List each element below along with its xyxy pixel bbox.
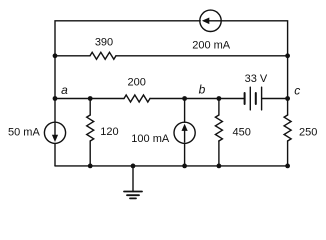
junction dot node a [53, 96, 58, 101]
wire resistor 200 to battery [150, 98, 245, 100]
svg-text:450: 450 [233, 126, 251, 138]
wire top-right segment [221, 21, 288, 56]
wire 120 branch bottom lead [89, 141, 91, 166]
junction dot 120 top [88, 96, 93, 101]
junction dot 100 mA top [182, 96, 187, 101]
svg-text:120: 120 [100, 126, 118, 138]
ground bar 3 [130, 197, 136, 199]
current source I2 arrow shaft [54, 124, 56, 137]
wire 100 mA branch bottom lead [184, 143, 186, 166]
battery V1 33V short plate 2 [255, 93, 257, 104]
wire 250 branch bottom lead [287, 141, 289, 166]
wire 390-row left lead [55, 55, 90, 57]
current source I1 arrowhead [202, 18, 209, 25]
wire top-left segment [55, 21, 200, 56]
battery V1 33V long plate 1 [249, 87, 251, 110]
wire bottom rail [55, 165, 288, 167]
svg-text:a: a [61, 83, 68, 97]
resistor 450 zigzag [215, 115, 222, 141]
svg-text:c: c [294, 83, 300, 97]
current source I2 50 mA circle [44, 122, 65, 143]
current source I2 arrowhead [52, 135, 58, 142]
junction dot ground [131, 164, 136, 169]
wire node a down to 50 mA source [54, 99, 56, 123]
resistor 250 zigzag [284, 115, 291, 141]
svg-text:200 mA: 200 mA [192, 39, 231, 51]
resistor 120 zigzag [87, 115, 94, 141]
wire 250 branch top lead [287, 99, 289, 116]
current source I3 arrow shaft [184, 129, 186, 142]
wire right vertical between 390-row and node c [287, 56, 289, 99]
junction dot 450 bottom [217, 164, 222, 169]
battery V1 33V short plate 1 [244, 93, 246, 104]
svg-text:33 V: 33 V [245, 73, 268, 85]
wire 390-row right lead [116, 55, 288, 57]
svg-text:200: 200 [128, 77, 146, 89]
current source I1 arrow shaft [207, 20, 221, 22]
battery V1 33V long plate 2 [261, 87, 263, 110]
current source I1 200 mA circle [200, 10, 221, 31]
wire battery to node c [262, 98, 288, 100]
wire 100 mA branch top lead [184, 99, 186, 123]
resistor 200 zigzag [124, 95, 150, 102]
junction dot right 390-row [285, 53, 290, 58]
wire 450 branch top lead [218, 99, 220, 116]
wire 120 branch top lead [89, 99, 91, 116]
ground bar 2 [127, 194, 139, 196]
junction dot 120 bottom [88, 164, 93, 169]
junction dot left 390-row [53, 53, 58, 58]
junction dot 100 mA bottom [182, 164, 187, 169]
resistor 390 zigzag [90, 52, 116, 59]
wire node a to resistor 200 [55, 98, 124, 100]
wire 50 mA source to bottom wire [54, 143, 56, 166]
svg-text:250: 250 [299, 126, 317, 138]
svg-text:b: b [199, 83, 206, 97]
svg-text:390: 390 [95, 36, 113, 48]
junction dot node c [285, 96, 290, 101]
junction dot 250 bottom [285, 164, 290, 169]
current source I3 arrowhead [182, 124, 188, 131]
wire left vertical between 390-row and node a [54, 56, 56, 99]
svg-text:50 mA: 50 mA [8, 127, 40, 139]
junction dot 450 top [217, 96, 222, 101]
wire 450 branch bottom lead [218, 141, 220, 166]
ground bar 1 [124, 191, 142, 193]
svg-text:100 mA: 100 mA [131, 133, 170, 145]
current source I3 100 mA circle [174, 122, 195, 143]
ground stem [132, 166, 134, 192]
